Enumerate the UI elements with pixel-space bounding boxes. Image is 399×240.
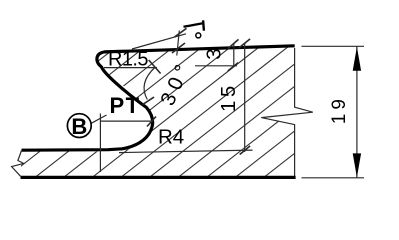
plate bottom edge (21, 176, 296, 179)
svg-text:R1.5: R1.5 (108, 49, 148, 71)
dim 3: line, ticks, ext line, text (233, 44, 235, 66)
svg-text:3: 3 (202, 48, 225, 59)
R1.5 label and landing line (104, 67, 157, 69)
svg-text:R4: R4 (158, 126, 184, 149)
left plate break zigzag (12, 151, 24, 177)
dim 7deg: slanted ref line, cross line, ticks, text (132, 34, 186, 49)
svg-text:PT: PT (110, 93, 141, 118)
balloon B with leader (90, 115, 106, 124)
dim 30deg: arc, ticks, text (144, 67, 155, 100)
profile outline: top edge, R1.5 corner, 30-deg wall, R4 fillet, plate top (22, 46, 295, 150)
svg-text:19: 19 (329, 95, 350, 124)
svg-text:15: 15 (217, 82, 240, 112)
dim 15: line, ticks, ext line, text (244, 43, 246, 152)
right break line with notch (261, 48, 313, 176)
svg-text:B: B (71, 114, 87, 139)
dim 19: extension lines, dim line, arrows, text (302, 45, 365, 47)
